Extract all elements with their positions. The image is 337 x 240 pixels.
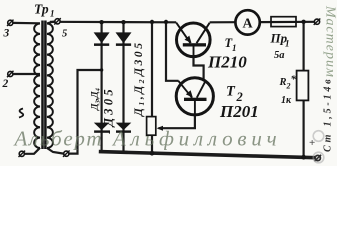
svg-text:5а: 5а [274, 50, 285, 61]
svg-text:1: 1 [232, 43, 237, 53]
svg-text:П201: П201 [219, 102, 259, 121]
svg-text:Т: Т [226, 84, 236, 100]
svg-text:1: 1 [285, 39, 290, 49]
svg-text:*: * [291, 74, 297, 86]
svg-text:П210: П210 [207, 53, 247, 72]
svg-text:1: 1 [50, 9, 55, 19]
svg-text:R: R [279, 77, 287, 88]
svg-text:5: 5 [62, 29, 67, 40]
svg-text:Мастерим: Мастерим [323, 5, 337, 78]
svg-text:Альберт: Альберт [13, 127, 104, 151]
svg-text:2: 2 [2, 78, 9, 90]
svg-text:1к: 1к [281, 95, 292, 106]
svg-text:Альфиллович: Альфиллович [111, 127, 281, 151]
svg-text:А: А [243, 17, 254, 32]
svg-text:3: 3 [3, 28, 10, 40]
svg-text:Тр: Тр [34, 2, 49, 17]
svg-text:Ст 1,5-14в: Ст 1,5-14в [323, 77, 334, 152]
